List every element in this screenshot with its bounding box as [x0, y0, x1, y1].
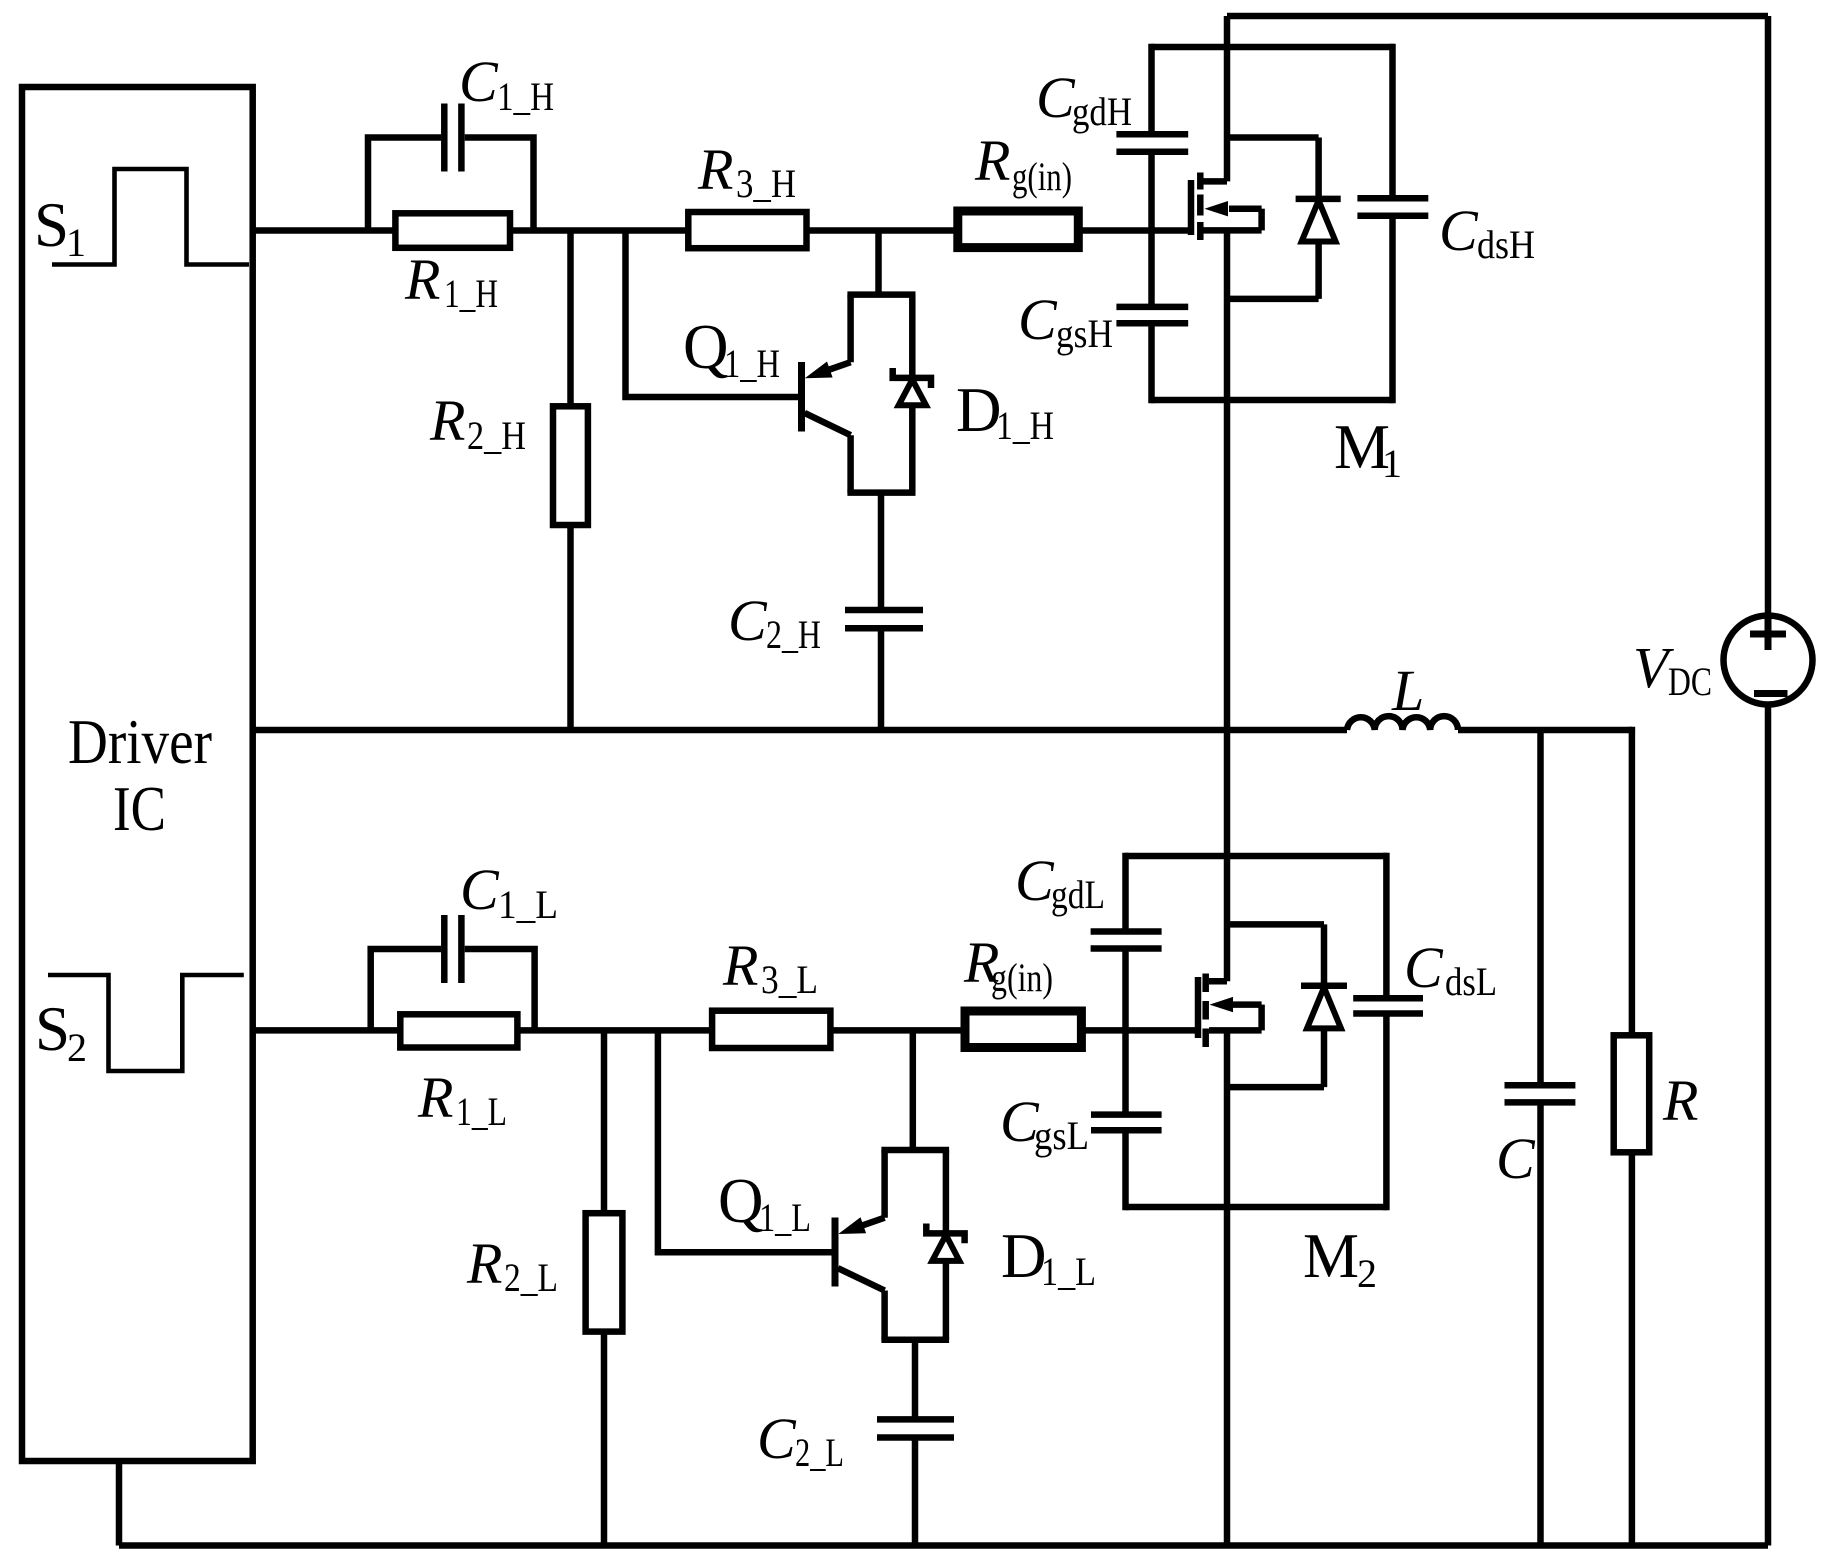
body diode M2 — [1227, 924, 1347, 1087]
svg-text:L: L — [1391, 658, 1424, 723]
label Driver IC — [68, 707, 212, 844]
wire Q1_H top stub — [875, 231, 882, 295]
label S2 — [35, 994, 87, 1070]
svg-text:C: C — [1018, 287, 1058, 352]
label Rg(in) high side — [974, 128, 1072, 199]
svg-text:Driver: Driver — [68, 707, 212, 777]
label D1_L — [1001, 1221, 1096, 1294]
svg-text:gdH: gdH — [1072, 89, 1132, 134]
wire Q1_L loop — [881, 1150, 949, 1340]
svg-text:dsH: dsH — [1477, 222, 1535, 267]
label VDC — [1633, 635, 1712, 704]
svg-text:1_L: 1_L — [1041, 1249, 1096, 1294]
svg-text:C: C — [1404, 935, 1444, 1000]
wire half-bridge bus middle — [1224, 230, 1231, 981]
label M1 — [1334, 412, 1402, 486]
label L — [1391, 658, 1424, 723]
capacitor CdsH — [1357, 198, 1428, 215]
resistor R2_H — [553, 406, 588, 525]
svg-text:R: R — [697, 137, 733, 202]
svg-text:1_L: 1_L — [456, 1089, 507, 1134]
resistor R — [1614, 1035, 1650, 1152]
svg-text:1: 1 — [66, 220, 86, 265]
capacitor C1_H — [368, 104, 534, 231]
wire Q1_H base branch — [626, 231, 799, 398]
svg-text:g(in): g(in) — [1012, 154, 1072, 199]
svg-text:C: C — [1015, 848, 1055, 913]
svg-text:2_L: 2_L — [504, 1255, 558, 1300]
wire R2_H branch — [567, 231, 574, 731]
wire C2_L stub — [912, 1340, 919, 1420]
label Q1_L — [718, 1166, 811, 1240]
svg-text:3_H: 3_H — [736, 161, 796, 206]
svg-text:1: 1 — [1382, 441, 1402, 486]
MOSFET M2 package box — [1126, 853, 1388, 1210]
label CgsL — [1000, 1089, 1089, 1158]
transistor Q1_H — [802, 362, 851, 436]
pulse waveform S2 — [48, 975, 244, 1071]
diode D1_L — [926, 1150, 964, 1340]
wire half-bridge bus upper — [1224, 16, 1231, 181]
svg-text:2: 2 — [1357, 1251, 1377, 1296]
svg-text:C: C — [728, 588, 768, 653]
svg-text:C: C — [757, 1406, 797, 1471]
label C1_H — [459, 49, 554, 119]
wire driver ground stub — [116, 1461, 123, 1546]
label C — [1496, 1126, 1536, 1191]
svg-text:S: S — [35, 994, 70, 1064]
svg-text:3_L: 3_L — [761, 957, 818, 1002]
label D1_H — [956, 375, 1054, 448]
svg-text:g(in): g(in) — [991, 955, 1053, 1000]
svg-text:1_H: 1_H — [497, 74, 554, 119]
svg-text:gdL: gdL — [1051, 872, 1105, 917]
wire Q1_H loop — [847, 295, 915, 493]
wire VDC branch lower — [1765, 705, 1772, 1546]
svg-text:gsH: gsH — [1056, 311, 1113, 356]
label R2_L — [466, 1231, 558, 1300]
svg-text:D: D — [956, 375, 1002, 445]
label CdsH — [1439, 198, 1535, 267]
svg-text:R: R — [466, 1231, 502, 1296]
wire bottom rail — [119, 1542, 1768, 1549]
wire mid rail right — [1458, 727, 1632, 734]
wire mid rail left — [253, 727, 1347, 734]
svg-text:2_L: 2_L — [795, 1430, 844, 1475]
MOSFET M1 package box — [1151, 44, 1394, 403]
resistor Rg(in) low side — [965, 1011, 1081, 1048]
MOSFET M1 symbol — [1191, 173, 1262, 241]
resistor R1_H — [395, 213, 510, 248]
capacitor CdsL — [1353, 998, 1423, 1013]
wire S2 gate row — [253, 1027, 1198, 1034]
svg-text:1_H: 1_H — [444, 271, 498, 316]
capacitor C1_L — [371, 915, 535, 1030]
label C1_L — [460, 857, 558, 927]
svg-text:C: C — [1036, 65, 1076, 130]
wire Q1_L top stub — [910, 1030, 917, 1150]
transistor Q1_L — [835, 1217, 885, 1290]
wire VDC branch upper — [1765, 16, 1772, 616]
pulse waveform S1 — [52, 169, 249, 265]
label CgdL — [1015, 848, 1105, 917]
label CgsH — [1018, 287, 1113, 356]
svg-text:R: R — [1662, 1068, 1698, 1133]
MOSFET M2 symbol — [1198, 974, 1262, 1048]
resistor Rg(in) high side — [958, 211, 1079, 248]
svg-text:C: C — [459, 49, 499, 114]
driver IC box U1 — [22, 87, 253, 1461]
wire R2_L branch — [601, 1030, 608, 1545]
resistor R2_L — [586, 1213, 623, 1331]
label R — [1662, 1068, 1698, 1133]
svg-text:R: R — [429, 388, 465, 453]
label C2_L — [757, 1406, 844, 1475]
svg-text:R: R — [722, 933, 758, 998]
wire C2_H stub — [878, 493, 885, 610]
label R1_L — [417, 1065, 507, 1134]
diode D1_H — [893, 295, 931, 493]
svg-text:R: R — [404, 247, 440, 312]
svg-text:DC: DC — [1668, 659, 1712, 704]
label R2_H — [429, 388, 526, 458]
wire half-bridge bus lower — [1224, 1030, 1231, 1545]
svg-text:D: D — [1001, 1221, 1047, 1291]
label Q1_H — [683, 312, 780, 386]
label C2_H — [728, 588, 821, 657]
svg-text:dsL: dsL — [1445, 959, 1497, 1004]
svg-text:1_H: 1_H — [724, 341, 780, 386]
svg-text:2: 2 — [67, 1025, 87, 1070]
capacitor C2_H — [845, 610, 923, 730]
label R1_H — [404, 247, 498, 316]
body diode M1 — [1227, 138, 1341, 299]
svg-text:R: R — [417, 1065, 453, 1130]
label CdsL — [1404, 935, 1497, 1004]
svg-text:Q: Q — [683, 312, 729, 382]
svg-text:R: R — [974, 128, 1010, 193]
svg-text:1_H: 1_H — [996, 403, 1054, 448]
wire R branch — [1632, 730, 1635, 1546]
capacitor CgdH — [1116, 134, 1188, 152]
svg-text:C: C — [1496, 1126, 1536, 1191]
svg-text:S: S — [34, 190, 69, 260]
capacitor C2_L — [877, 1419, 954, 1545]
svg-text:1_L: 1_L — [498, 882, 558, 927]
svg-text:2_H: 2_H — [467, 413, 526, 458]
resistor R3_H — [688, 212, 806, 248]
capacitor CgsH — [1116, 307, 1188, 323]
inductor L — [1347, 716, 1458, 730]
svg-text:C: C — [460, 857, 500, 922]
wire Q1_L base branch — [658, 1030, 832, 1252]
svg-text:2_H: 2_H — [766, 612, 821, 657]
wire C branch — [1537, 730, 1544, 1546]
svg-text:C: C — [1439, 198, 1479, 263]
wire top rail — [1227, 13, 1768, 20]
label M2 — [1303, 1221, 1377, 1296]
svg-text:1_L: 1_L — [759, 1195, 811, 1240]
capacitor CgdL — [1091, 932, 1162, 949]
svg-text:gsL: gsL — [1034, 1113, 1089, 1158]
label R3_L — [722, 933, 818, 1002]
capacitor C — [1505, 1085, 1576, 1102]
capacitor CgsL — [1091, 1115, 1162, 1131]
resistor R3_L — [712, 1011, 830, 1048]
label R3_H — [697, 137, 796, 206]
label S1 — [34, 190, 86, 265]
label Rg(in) low side — [963, 930, 1053, 1000]
label CgdH — [1036, 65, 1132, 134]
wire S1 gate row — [253, 227, 1191, 234]
source VDC — [1724, 616, 1813, 705]
svg-text:IC: IC — [113, 774, 166, 844]
svg-text:Q: Q — [718, 1166, 764, 1236]
svg-text:M: M — [1303, 1221, 1359, 1291]
resistor R1_L — [400, 1014, 517, 1047]
